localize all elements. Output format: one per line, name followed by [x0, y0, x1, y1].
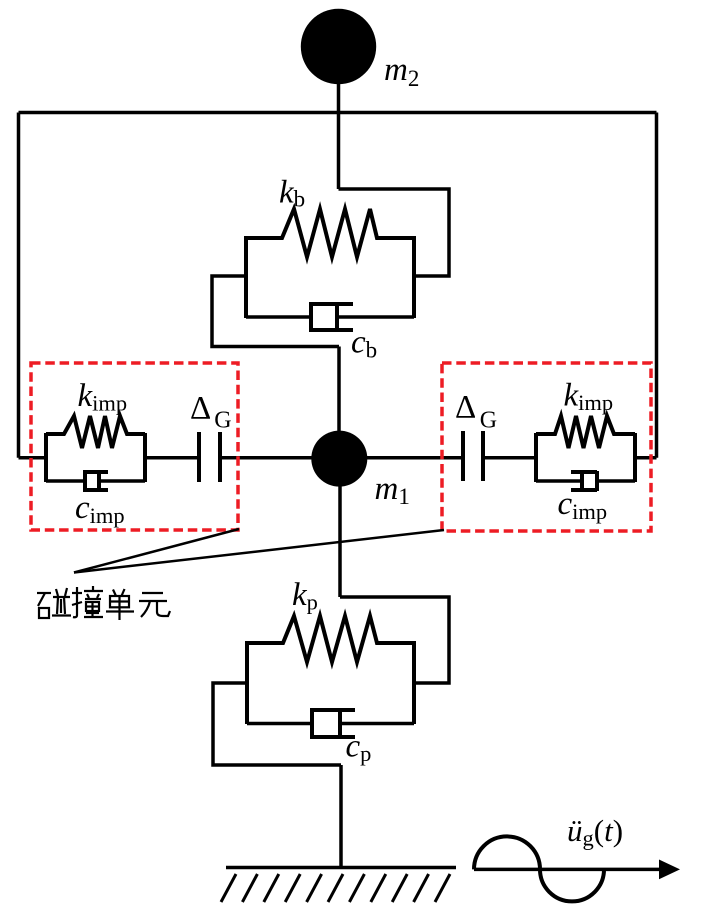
svg-text:üg(t): üg(t): [567, 813, 623, 851]
